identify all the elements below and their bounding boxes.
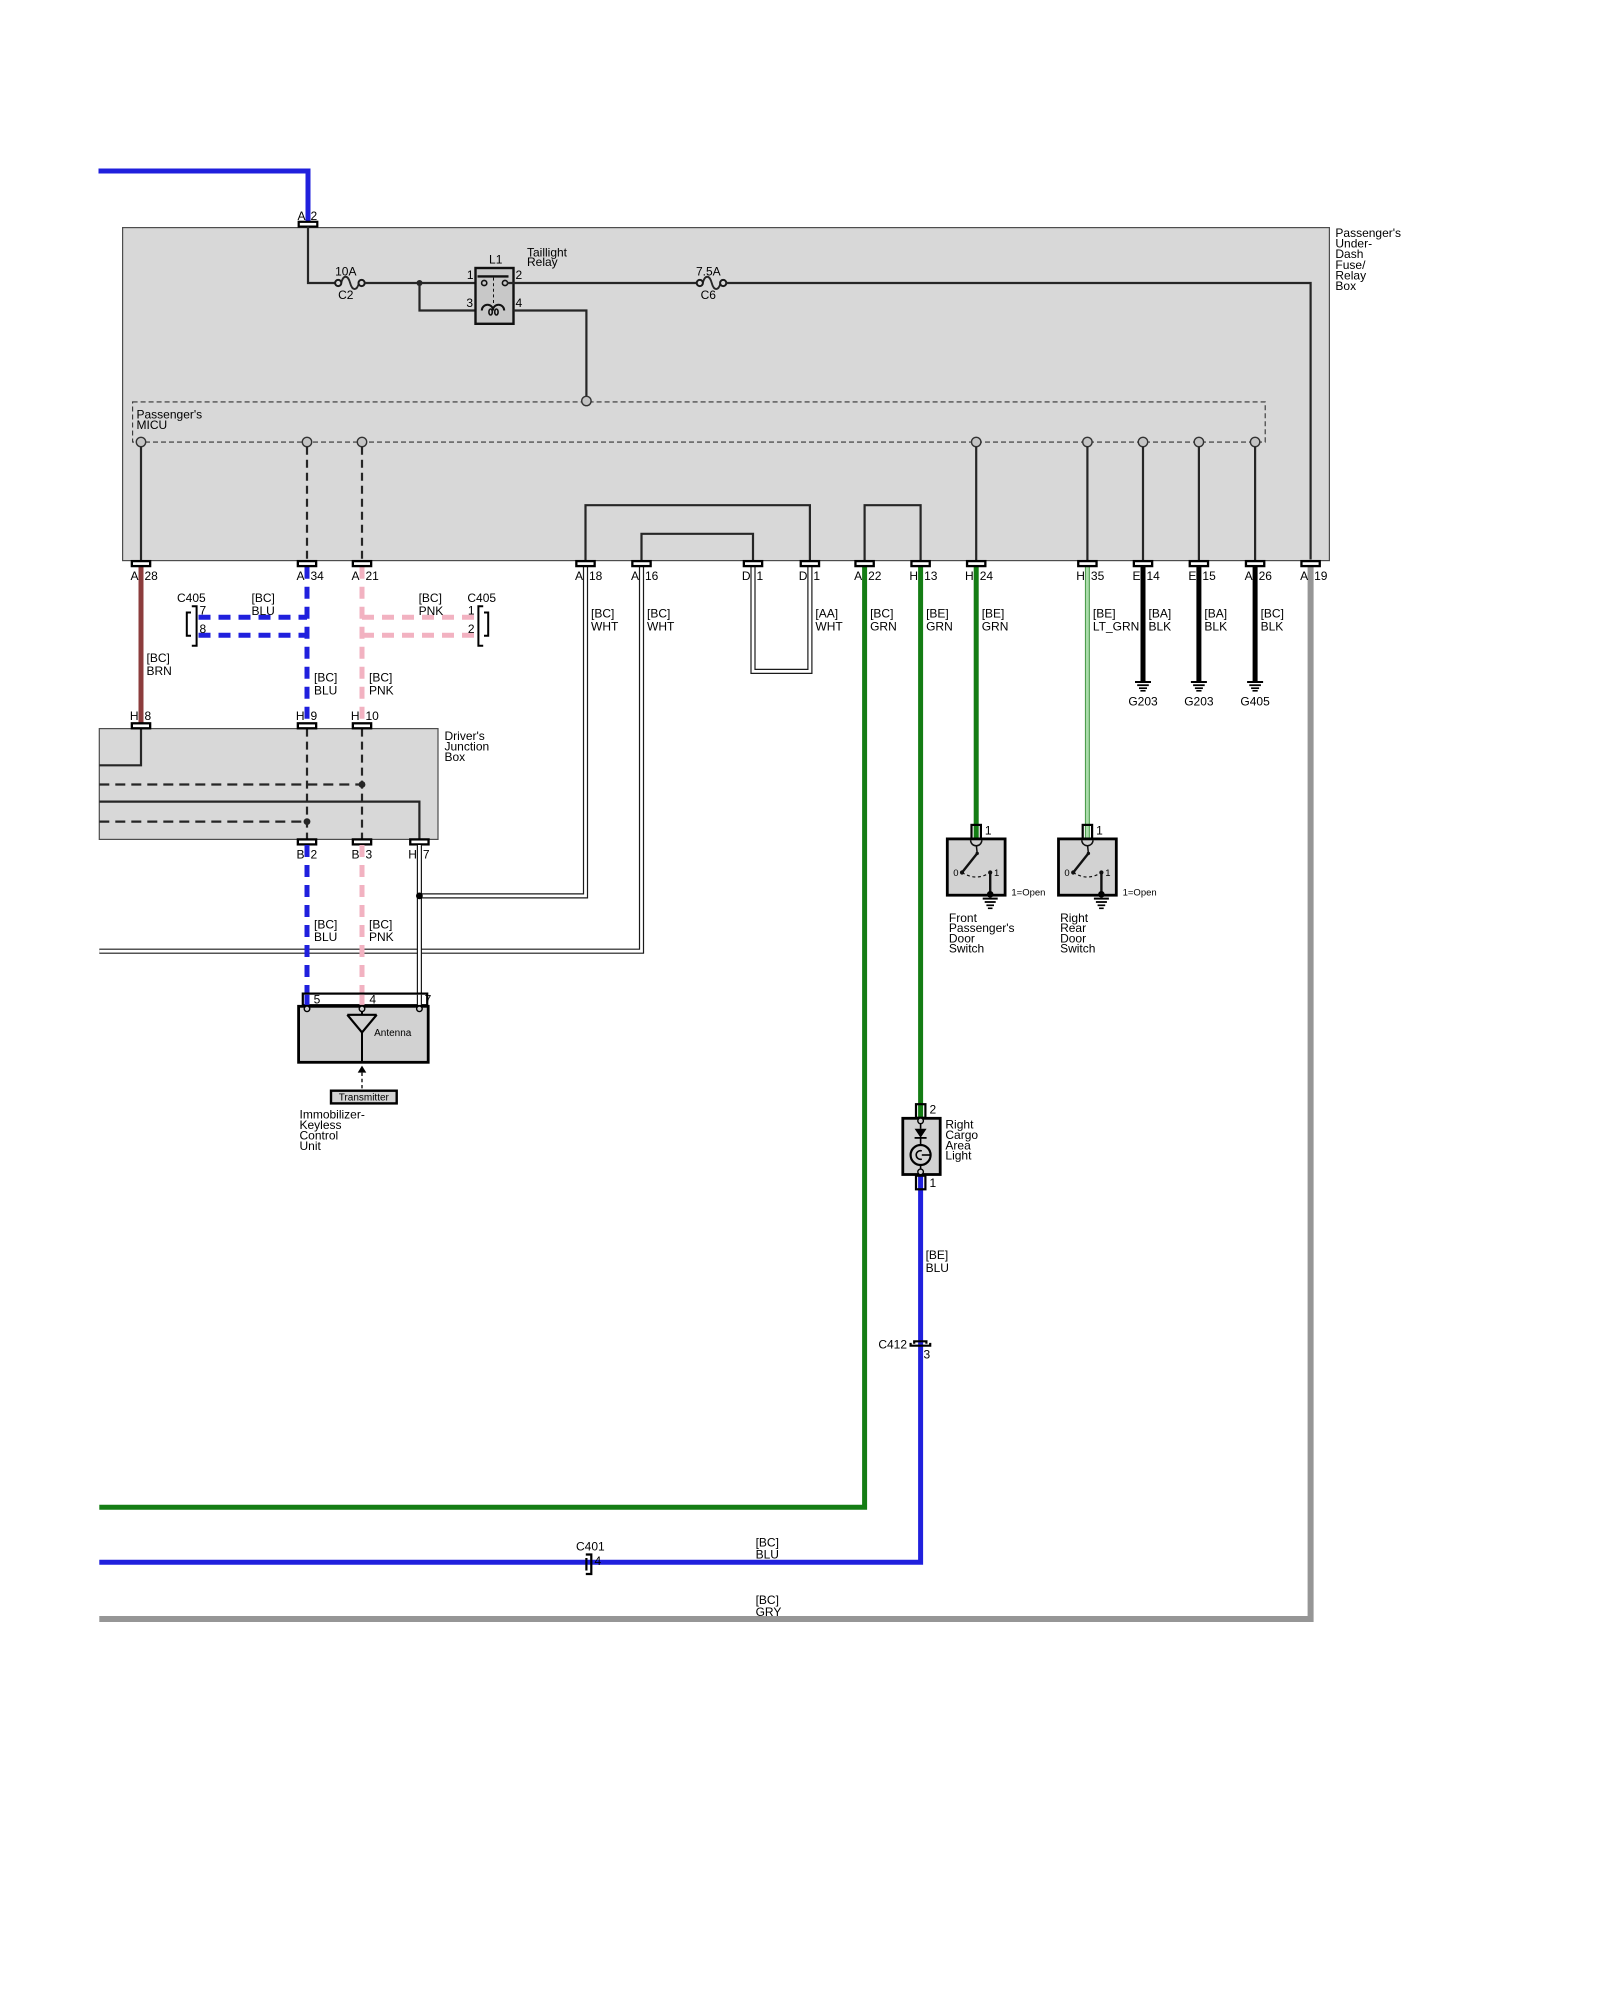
wire MICU to E15 xyxy=(1198,447,1200,560)
svg-text:BLU: BLU xyxy=(926,1261,949,1275)
svg-text:18: 18 xyxy=(589,569,603,583)
svg-text:1: 1 xyxy=(994,868,999,879)
label Right Cargo Area Light xyxy=(945,1118,978,1163)
label [BE] BLU xyxy=(926,1248,949,1275)
svg-text:10: 10 xyxy=(366,709,380,723)
ground (right rear door switch) xyxy=(1094,891,1109,908)
svg-text:22: 22 xyxy=(868,569,882,583)
svg-text:Unit: Unit xyxy=(300,1139,322,1153)
connector A 22 xyxy=(854,561,882,583)
svg-text:H: H xyxy=(909,569,918,583)
label [BE] LT_GRN (H35) xyxy=(1093,607,1139,634)
svg-text:21: 21 xyxy=(366,569,380,583)
svg-text:Switch: Switch xyxy=(949,942,984,956)
wire [BC] BRN A28 to H8 xyxy=(139,567,144,724)
wire [BA] BLK E15 to G203 xyxy=(1196,567,1201,681)
wire [BC] GRN A22 xyxy=(99,567,864,1508)
svg-text:3: 3 xyxy=(466,296,473,310)
svg-text:BLK: BLK xyxy=(1204,619,1227,633)
wire internal bus (dashed, to H9) xyxy=(99,820,307,822)
ground (front door switch) xyxy=(983,891,998,908)
label Immobilizer-Keyless Control Unit xyxy=(300,1108,365,1154)
svg-text:19: 19 xyxy=(1314,569,1328,583)
connector C412 pin 3 xyxy=(878,1338,930,1362)
svg-text:8: 8 xyxy=(200,622,207,636)
wire H8 internal xyxy=(99,729,141,766)
wire C2 to relay pin 1 xyxy=(365,282,482,284)
label [BC] BLU (B2) xyxy=(314,917,337,944)
svg-text:C401: C401 xyxy=(576,1540,605,1554)
terminal pin 5 xyxy=(304,1006,310,1012)
antenna symbol xyxy=(347,1011,411,1062)
wire C405 pin 1 PNK (dashed) xyxy=(362,615,477,620)
label [BC] BRN xyxy=(147,651,172,678)
svg-text:GRN: GRN xyxy=(926,619,953,633)
wire internal bus (dashed, to H10) xyxy=(99,783,362,785)
svg-text:5: 5 xyxy=(314,992,321,1006)
svg-text:L1: L1 xyxy=(489,253,503,267)
svg-text:BLU: BLU xyxy=(252,604,275,618)
junction node xyxy=(417,280,423,286)
svg-text:E: E xyxy=(1188,569,1196,583)
svg-text:2: 2 xyxy=(516,268,523,282)
svg-text:4: 4 xyxy=(516,296,523,310)
svg-text:H: H xyxy=(351,709,360,723)
connector A 34 xyxy=(296,561,324,583)
svg-text:E: E xyxy=(1132,569,1140,583)
MICU terminal E15 xyxy=(1194,437,1203,446)
connector D 1 (second) xyxy=(799,561,821,583)
connector strip immobilizer (pins 5/4/7) xyxy=(303,994,427,1006)
svg-text:34: 34 xyxy=(311,569,325,583)
wire C405 pin 7 BLU (dashed) xyxy=(199,615,308,620)
connector A 16 xyxy=(631,561,659,583)
ground G203 (E15) xyxy=(1184,682,1214,709)
label [BC] PNK (above H10) xyxy=(369,671,394,698)
svg-text:8: 8 xyxy=(145,709,152,723)
wire WHT H7 to immobilizer xyxy=(417,845,422,1007)
wire [BE] BLU cargo light to C412 and off-page xyxy=(99,1177,920,1563)
MICU terminal H35 xyxy=(1083,437,1092,446)
connector cargo light pin 1 xyxy=(916,1176,937,1190)
wire BLU through strip pin 5 xyxy=(305,995,310,1007)
svg-text:GRN: GRN xyxy=(870,619,897,633)
label Front Passenger's Door Switch xyxy=(949,911,1015,956)
fuse C2 10A xyxy=(335,265,365,303)
connector E 14 xyxy=(1132,561,1160,583)
connector A 21 xyxy=(351,561,379,583)
svg-text:13: 13 xyxy=(924,569,938,583)
connector door switch pin 1 (front) xyxy=(972,824,992,839)
label [BC] BLU (C405 row) xyxy=(252,591,275,618)
wire A16 to D1 (in box) xyxy=(642,534,754,560)
Right Cargo Area Light xyxy=(903,1118,940,1175)
connector A 28 xyxy=(130,561,158,583)
wire MICU to H24 xyxy=(975,447,977,560)
MICU terminal (relay feed) xyxy=(582,396,591,405)
label [BC] WHT (A18) xyxy=(591,607,619,634)
svg-text:H: H xyxy=(408,848,417,862)
svg-text:PNK: PNK xyxy=(419,604,444,618)
svg-text:BLU: BLU xyxy=(314,683,337,697)
wire MICU to A28 xyxy=(140,447,142,560)
connector H 13 xyxy=(909,561,937,583)
wire C405 pin 2 PNK (dashed) xyxy=(362,633,477,638)
connector C401 pin 4 xyxy=(576,1540,605,1575)
svg-text:A: A xyxy=(854,569,862,583)
svg-text:A: A xyxy=(296,569,304,583)
wire [BE] GRN H24 to door switch xyxy=(974,567,979,840)
svg-text:3: 3 xyxy=(924,1348,931,1362)
labels strip pins 5/4/7 xyxy=(314,992,432,1006)
svg-text:2: 2 xyxy=(311,848,318,862)
svg-text:1: 1 xyxy=(467,268,474,282)
svg-text:2: 2 xyxy=(311,209,318,223)
svg-text:A: A xyxy=(1245,569,1253,583)
svg-text:A: A xyxy=(130,569,138,583)
svg-text:H: H xyxy=(296,709,305,723)
svg-text:GRN: GRN xyxy=(982,619,1009,633)
Passenger's Under-Dash Fuse/Relay Box xyxy=(123,226,1401,561)
label [BE] GRN (H24) xyxy=(982,607,1009,634)
Passenger's MICU (dashed box) xyxy=(133,402,1266,442)
svg-text:G203: G203 xyxy=(1184,695,1214,709)
svg-text:BLU: BLU xyxy=(314,930,337,944)
wire MICU to A21 (dashed) xyxy=(361,447,363,560)
svg-text:A: A xyxy=(297,209,305,223)
svg-text:1: 1 xyxy=(468,604,475,618)
svg-text:WHT: WHT xyxy=(647,619,675,633)
connector A 2 xyxy=(297,209,317,227)
svg-text:1: 1 xyxy=(1105,868,1110,879)
svg-text:15: 15 xyxy=(1202,569,1216,583)
connector C405 pins 7/8 xyxy=(177,591,207,646)
svg-text:16: 16 xyxy=(645,569,659,583)
svg-text:PNK: PNK xyxy=(369,930,394,944)
wire [BC] BLK A26 to G405 xyxy=(1253,567,1258,681)
svg-text:BLK: BLK xyxy=(1149,619,1172,633)
label [BC] GRN (A22) xyxy=(870,607,897,634)
transmitter arrow xyxy=(358,1066,367,1091)
svg-text:24: 24 xyxy=(980,569,994,583)
svg-text:Antenna: Antenna xyxy=(374,1028,412,1039)
wire relay pin 4 to MICU xyxy=(514,311,587,397)
taillight relay L1 xyxy=(466,268,522,324)
svg-text:C2: C2 xyxy=(338,288,354,302)
terminal pin 7 xyxy=(417,1006,423,1012)
Front Passenger's Door Switch xyxy=(947,839,1005,895)
label [BE] GRN (H13) xyxy=(926,607,953,634)
svg-text:9: 9 xyxy=(311,709,318,723)
wire C405 pin 8 BLU (dashed) xyxy=(199,633,308,638)
MICU terminal A28 xyxy=(136,437,145,446)
svg-text:Switch: Switch xyxy=(1060,942,1095,956)
svg-text:10A: 10A xyxy=(335,265,356,279)
svg-text:Box: Box xyxy=(445,750,466,764)
wire MICU to E14 xyxy=(1142,447,1144,560)
wire internal bus (solid, to H7) xyxy=(99,802,419,840)
junction node (H7/A18 white) xyxy=(416,893,423,900)
svg-text:BLU: BLU xyxy=(756,1548,779,1562)
MICU terminal A34 xyxy=(302,437,311,446)
Right Rear Door Switch xyxy=(1059,839,1117,895)
label [BC] BLU (above H9) xyxy=(314,671,337,698)
wire A22 to H13 (in box) xyxy=(865,505,921,560)
svg-text:1: 1 xyxy=(813,569,820,583)
wire WHT through strip pin 7 xyxy=(417,995,422,1007)
svg-text:4: 4 xyxy=(595,1554,602,1568)
label [BC] BLU (bottom) xyxy=(756,1536,779,1562)
connector C405 pins 1/2 xyxy=(467,591,496,646)
svg-text:WHT: WHT xyxy=(815,619,843,633)
label [BC] PNK (C405 row) xyxy=(419,591,444,618)
wire [BC] WHT A18 xyxy=(419,567,585,896)
connector D 1 (first) xyxy=(742,561,764,583)
connector A 19 xyxy=(1300,561,1328,583)
ground G203 (E14) xyxy=(1128,682,1158,709)
wire A18 to D1 (in box) xyxy=(586,505,810,560)
svg-text:35: 35 xyxy=(1091,569,1105,583)
wire MICU to H35 xyxy=(1086,447,1088,560)
svg-text:14: 14 xyxy=(1147,569,1161,583)
connector E 15 xyxy=(1188,561,1216,583)
fuse C6 7.5A xyxy=(696,265,726,303)
svg-text:1: 1 xyxy=(1096,824,1103,838)
connector H 7 xyxy=(408,839,430,861)
svg-text:G203: G203 xyxy=(1128,695,1158,709)
svg-text:B: B xyxy=(296,848,304,862)
MICU terminal A21 xyxy=(357,437,366,446)
svg-text:Transmitter: Transmitter xyxy=(339,1093,390,1104)
Immobilizer-Keyless Control Unit xyxy=(299,1006,429,1062)
svg-text:7: 7 xyxy=(200,604,207,618)
connector H 24 xyxy=(965,561,993,583)
svg-text:H: H xyxy=(1076,569,1085,583)
connector B 2 xyxy=(296,839,317,861)
svg-text:7: 7 xyxy=(425,992,432,1006)
connector door switch pin 1 (right rear) xyxy=(1083,824,1103,839)
svg-text:2: 2 xyxy=(930,1103,937,1117)
svg-text:GRY: GRY xyxy=(756,1605,782,1619)
svg-text:Relay: Relay xyxy=(527,255,558,269)
ground G405 (A26) xyxy=(1240,682,1270,709)
wire [BC] PNK A21 to H10 (dashed) xyxy=(360,567,365,724)
label [AA] WHT (D1) xyxy=(815,607,843,634)
wire [BC] BLU B2 to immobilizer (dashed) xyxy=(305,845,310,1007)
wire H10 to B3 internal (dashed) xyxy=(361,729,363,840)
connector H 9 xyxy=(296,709,318,728)
wire [BC] PNK B3 to immobilizer (dashed) xyxy=(360,845,365,1007)
wire [BA] BLK E14 to G203 xyxy=(1141,567,1146,681)
connector B 3 xyxy=(351,839,372,861)
label Right Rear Door Switch xyxy=(1060,911,1095,956)
svg-text:Box: Box xyxy=(1335,279,1356,293)
junction node (H10 bus) xyxy=(359,781,366,788)
svg-text:1: 1 xyxy=(985,824,992,838)
connector cargo light pin 2 xyxy=(916,1103,937,1118)
svg-text:A: A xyxy=(1300,569,1308,583)
svg-text:2: 2 xyxy=(468,622,475,636)
connector H 10 xyxy=(351,709,379,728)
svg-text:4: 4 xyxy=(369,992,376,1006)
connector H 8 xyxy=(130,709,152,728)
wire H9 to B2 internal (dashed) xyxy=(306,729,308,840)
wire C6 to A19 xyxy=(726,283,1310,560)
svg-text:B: B xyxy=(351,848,359,862)
svg-text:LT_GRN: LT_GRN xyxy=(1093,619,1139,633)
svg-text:A: A xyxy=(575,569,583,583)
wire [BC] GRY A19 xyxy=(99,567,1310,1619)
svg-text:BRN: BRN xyxy=(147,664,172,678)
label [BA] BLK (E15) xyxy=(1204,607,1227,634)
label [BC] PNK (B3) xyxy=(369,917,394,944)
svg-text:PNK: PNK xyxy=(369,683,394,697)
svg-text:26: 26 xyxy=(1259,569,1273,583)
svg-text:D: D xyxy=(742,569,751,583)
wire [BC] WHT A16 xyxy=(99,567,641,951)
label [BC] WHT (A16) xyxy=(647,607,675,634)
connector A 26 xyxy=(1245,561,1273,583)
svg-text:G405: G405 xyxy=(1240,695,1270,709)
svg-text:1: 1 xyxy=(930,1176,937,1190)
svg-text:1: 1 xyxy=(757,569,764,583)
wire MICU to A26 xyxy=(1254,447,1256,560)
svg-text:1=Open: 1=Open xyxy=(1011,888,1045,899)
junction node (H9 bus) xyxy=(304,818,311,825)
Transmitter box xyxy=(331,1091,397,1104)
svg-text:H: H xyxy=(965,569,974,583)
svg-text:7.5A: 7.5A xyxy=(696,265,721,279)
svg-text:C6: C6 xyxy=(701,288,717,302)
wire battery feed BLU to A2 xyxy=(99,171,309,222)
Driver's Junction Box xyxy=(99,729,489,840)
svg-text:0: 0 xyxy=(1064,868,1069,879)
svg-text:D: D xyxy=(799,569,808,583)
wire A2 to fuse C2 xyxy=(308,227,336,283)
svg-text:28: 28 xyxy=(145,569,159,583)
svg-text:WHT: WHT xyxy=(591,619,619,633)
wire [BC] BLU A34 to H9 (dashed) xyxy=(305,567,310,724)
MICU terminal A26 xyxy=(1250,437,1259,446)
wire [BE] GRN H13 to cargo light xyxy=(918,567,923,1119)
svg-text:3: 3 xyxy=(366,848,373,862)
svg-text:BLK: BLK xyxy=(1261,619,1284,633)
svg-text:7: 7 xyxy=(423,848,430,862)
svg-text:H: H xyxy=(130,709,139,723)
svg-text:C412: C412 xyxy=(878,1338,907,1352)
MICU terminal H24 xyxy=(972,437,981,446)
wire PNK through strip pin 4 xyxy=(360,995,365,1007)
connector H 35 xyxy=(1076,561,1104,583)
MICU terminal E14 xyxy=(1138,437,1147,446)
svg-text:MICU: MICU xyxy=(137,418,168,432)
svg-text:A: A xyxy=(351,569,359,583)
svg-text:1=Open: 1=Open xyxy=(1123,888,1157,899)
wire junction to relay pin 3 xyxy=(420,283,482,311)
terminal pin 4 xyxy=(359,1006,365,1012)
label [BC] BLK (A26) xyxy=(1261,607,1284,634)
label [BA] BLK (E14) xyxy=(1149,607,1172,634)
svg-text:0: 0 xyxy=(953,868,958,879)
wire [AA] WHT D1 to D1 xyxy=(753,567,810,672)
wire relay pin 2 to fuse C6 xyxy=(507,282,697,284)
svg-text:A: A xyxy=(631,569,639,583)
wire MICU to A34 (dashed) xyxy=(306,447,308,560)
wire [BE] LT_GRN H35 to door switch xyxy=(1085,567,1090,840)
label [BC] GRY (bottom) xyxy=(756,1593,782,1619)
connector A 18 xyxy=(575,561,603,583)
svg-text:Light: Light xyxy=(945,1149,972,1163)
